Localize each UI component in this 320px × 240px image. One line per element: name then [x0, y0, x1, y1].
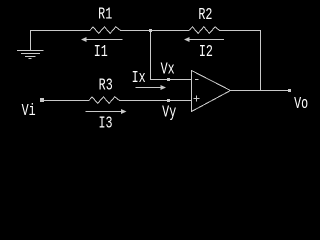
svg-text:I3: I3 [98, 115, 112, 134]
svg-text:Vy: Vy [162, 104, 176, 123]
svg-text:R2: R2 [198, 6, 212, 25]
svg-text:R1: R1 [98, 6, 112, 25]
svg-text:Ix: Ix [132, 69, 146, 88]
svg-text:I2: I2 [199, 43, 213, 62]
svg-text:Vi: Vi [22, 102, 36, 121]
svg-text:R3: R3 [99, 77, 113, 96]
svg-text:Vx: Vx [161, 61, 175, 80]
svg-text:Vo: Vo [294, 95, 308, 114]
svg-text:I1: I1 [94, 43, 108, 62]
